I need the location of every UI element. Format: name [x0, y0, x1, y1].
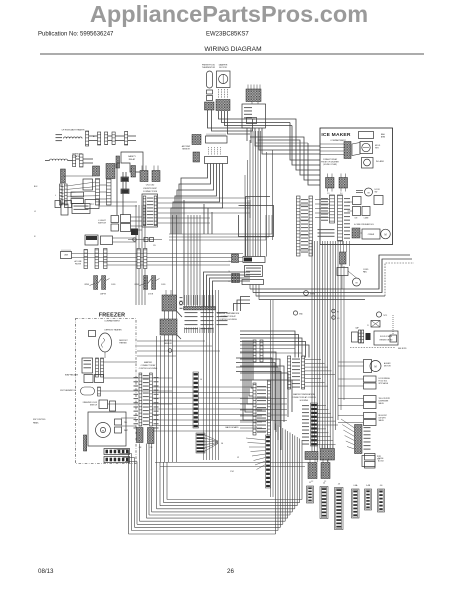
svg-text:FRZ CONTROL: FRZ CONTROL — [33, 419, 46, 421]
svg-text:SW: SW — [375, 192, 378, 194]
svg-text:CONNECTOR AT: CONNECTOR AT — [141, 364, 157, 367]
svg-text:CONNECTORS: CONNECTORS — [143, 191, 158, 193]
svg-text:WIRING DIAGRAM: WIRING DIAGRAM — [204, 46, 261, 53]
svg-text:HOUSING: HOUSING — [300, 400, 309, 402]
svg-text:ICE/WTR DISP: ICE/WTR DISP — [143, 188, 157, 190]
svg-text:SAFETY: SAFETY — [128, 155, 136, 158]
svg-text:L1: L1 — [34, 211, 36, 213]
svg-text:1 N2: 1 N2 — [230, 471, 234, 473]
svg-text:RESISTOR BD: RESISTOR BD — [380, 340, 393, 342]
svg-text:4-CUBE CRUSHER SOL: 4-CUBE CRUSHER SOL — [354, 224, 374, 226]
svg-text:(SOUND COVER): (SOUND COVER) — [323, 164, 337, 166]
svg-text:J2: J2 — [237, 457, 239, 459]
svg-text:1 2: 1 2 — [311, 481, 313, 483]
svg-text:VALVE: VALVE — [379, 402, 385, 405]
svg-text:M: M — [102, 431, 104, 433]
svg-text:OPEN: OPEN — [84, 284, 90, 286]
svg-text:CONTROL HOUSING: CONTROL HOUSING — [219, 319, 237, 321]
svg-text:J-4A: J-4A — [353, 484, 358, 487]
svg-text:SENSOR: SENSOR — [182, 149, 190, 151]
svg-text:ARM: ARM — [381, 136, 385, 139]
svg-text:M: M — [368, 193, 370, 195]
svg-text:SENSOR: SENSOR — [164, 343, 172, 345]
svg-text:SOLID STATE: SOLID STATE — [380, 335, 393, 338]
svg-text:CMPTR: CMPTR — [100, 294, 107, 296]
svg-text:VALVE: VALVE — [379, 419, 385, 422]
svg-text:MASTER: MASTER — [144, 361, 153, 364]
svg-text:CONTROL HOUSING: CONTROL HOUSING — [139, 368, 158, 370]
svg-text:1 3: 1 3 — [327, 193, 329, 195]
svg-text:CONNECTORS AT: CONNECTORS AT — [220, 315, 236, 318]
svg-text:WHT: WHT — [124, 430, 128, 432]
svg-text:YEL: YEL — [124, 422, 127, 424]
svg-text:CF HIGH-WATT HEATER: CF HIGH-WATT HEATER — [62, 129, 85, 132]
svg-text:J-4B: J-4B — [366, 485, 371, 487]
svg-text:J4: J4 — [200, 379, 202, 381]
svg-text:DEFROST HEATER: DEFROST HEATER — [104, 329, 122, 332]
svg-text:2 4: 2 4 — [340, 193, 342, 195]
svg-text:MOTOR: MOTOR — [384, 366, 391, 368]
svg-text:CLSD: CLSD — [111, 284, 116, 286]
svg-text:CRSHR: CRSHR — [368, 234, 375, 236]
svg-text:CONNECTORS AT CONTROL: CONNECTORS AT CONTROL — [292, 396, 317, 399]
svg-text:ICE MAKER: ICE MAKER — [321, 132, 351, 138]
svg-text:MOTOR: MOTOR — [219, 67, 227, 69]
svg-text:26: 26 — [227, 568, 234, 575]
svg-text:EW23BC85KS7: EW23BC85KS7 — [206, 32, 249, 38]
svg-text:WTR VALVE: WTR VALVE — [379, 382, 389, 385]
svg-text:INJ. ARM: INJ. ARM — [376, 160, 384, 163]
svg-text:FILTER: FILTER — [75, 264, 82, 266]
svg-text:SWITCH: SWITCH — [98, 223, 106, 225]
svg-text:AppliancePartsPros.com: AppliancePartsPros.com — [90, 1, 368, 27]
svg-text:Publication No: 5995636247: Publication No: 5995636247 — [38, 32, 114, 38]
svg-text:M: M — [356, 283, 358, 285]
svg-text:FRZ THERMISTOR: FRZ THERMISTOR — [60, 390, 77, 392]
svg-text:MASTER TEMPERATURE: MASTER TEMPERATURE — [293, 393, 315, 396]
svg-text:AUX ICE: AUX ICE — [164, 339, 172, 342]
svg-text:CLSD: CLSD — [161, 284, 166, 286]
svg-text:BLOCK: BLOCK — [378, 461, 385, 463]
svg-text:RELAY: RELAY — [129, 158, 136, 161]
svg-text:DOOR: DOOR — [148, 294, 154, 296]
svg-text:PTC: PTC — [90, 204, 95, 206]
svg-text:PANEL: PANEL — [33, 422, 39, 425]
svg-text:EVAP FAN MTR: EVAP FAN MTR — [65, 374, 79, 377]
svg-text:FREEZER TEMPERATURE: FREEZER TEMPERATURE — [217, 312, 240, 315]
svg-text:CN1 CN2: CN1 CN2 — [146, 185, 155, 187]
svg-text:COMPARTMENT: COMPARTMENT — [104, 320, 120, 323]
svg-text:THERMISTOR: THERMISTOR — [202, 67, 216, 69]
svg-text:THERMO: THERMO — [119, 343, 127, 345]
svg-text:M: M — [375, 366, 377, 369]
svg-text:M: M — [385, 234, 387, 237]
svg-text:BACK BOARD: BACK BOARD — [225, 426, 239, 429]
svg-text:SEE NOTE: SEE NOTE — [398, 348, 407, 350]
svg-text:08/13: 08/13 — [38, 568, 54, 575]
svg-text:FREEZER: FREEZER — [99, 313, 126, 319]
svg-text:SWITCH: SWITCH — [90, 405, 98, 407]
